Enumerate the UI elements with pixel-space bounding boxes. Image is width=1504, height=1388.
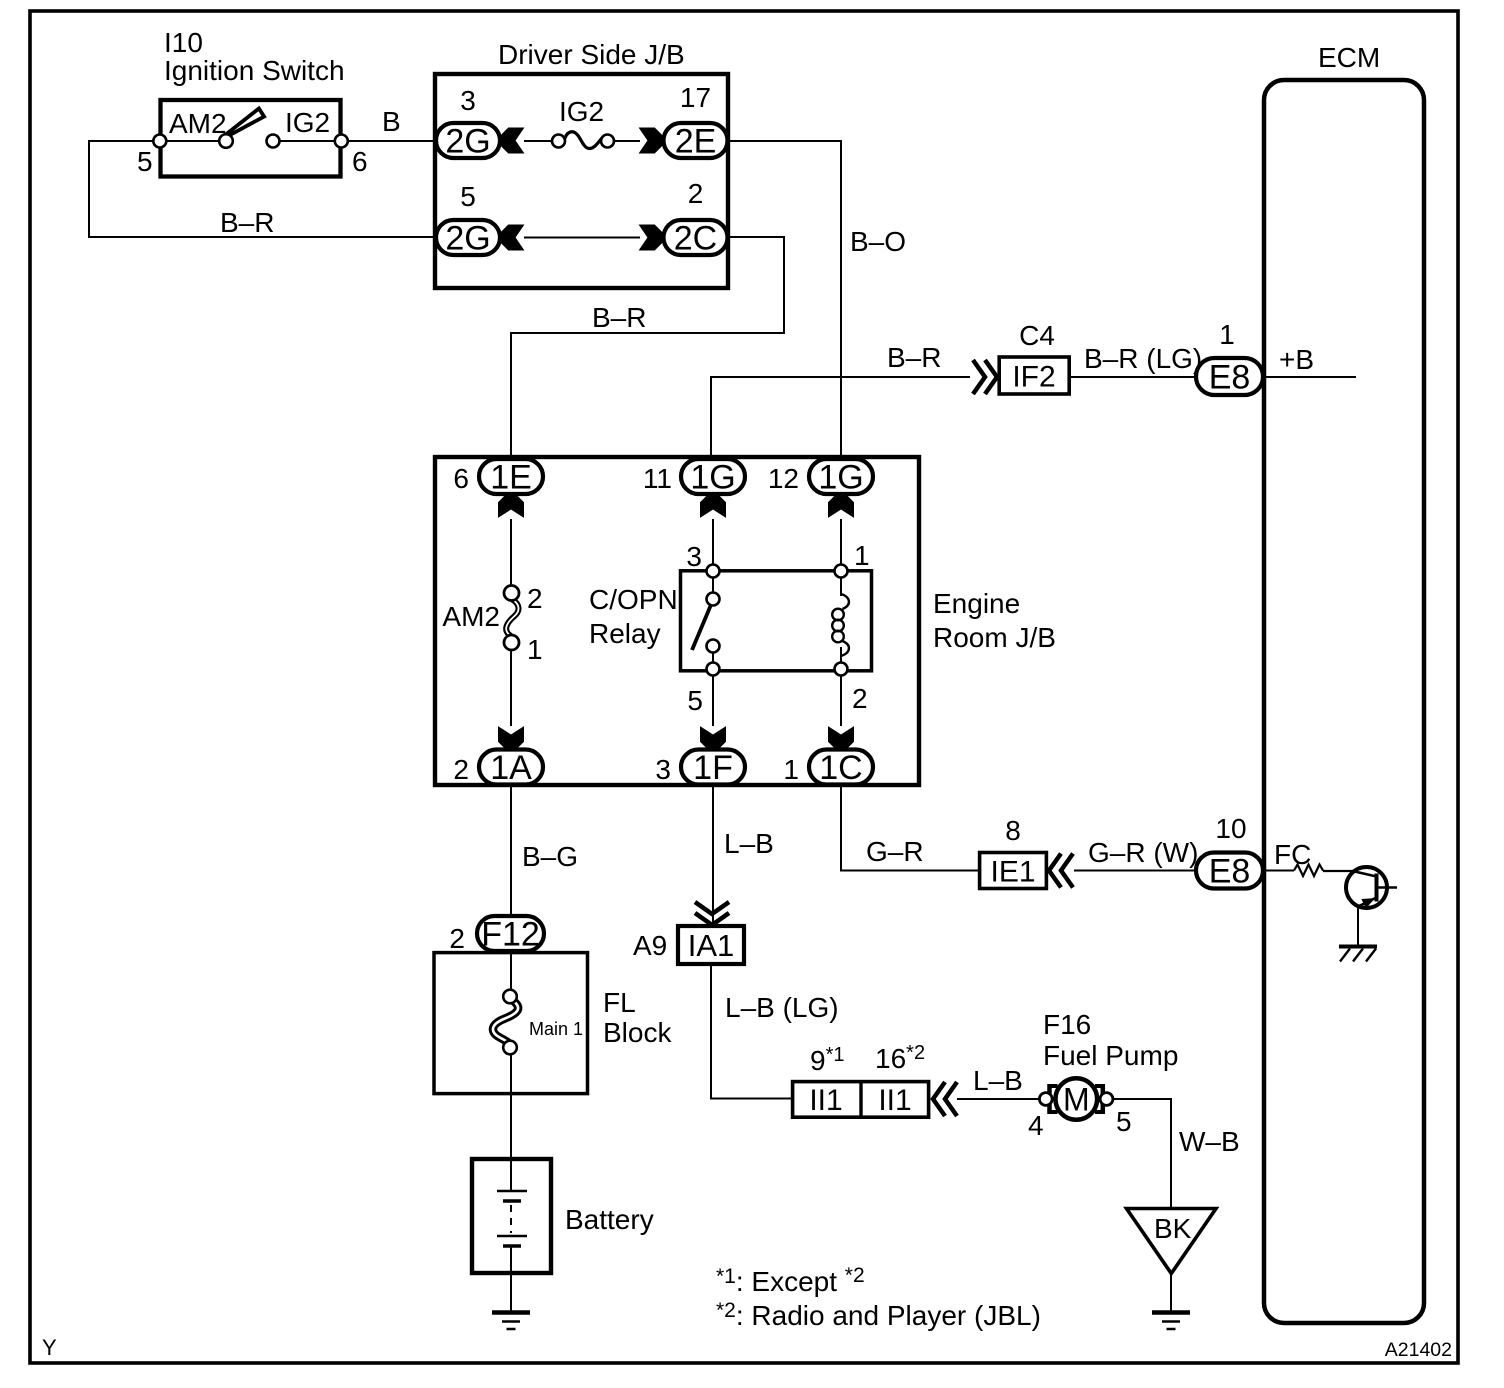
wire B-G 1A to F12 bbox=[510, 784, 512, 917]
FL block label bbox=[603, 987, 672, 1048]
svg-text:1E: 1E bbox=[490, 459, 532, 497]
wire B-R to IF2 bbox=[711, 376, 970, 458]
wire B-R (ignition pin 5 to 2G pin 5) bbox=[89, 140, 436, 238]
svg-text:FC: FC bbox=[1274, 839, 1311, 870]
svg-text:IF2: IF2 bbox=[1012, 360, 1055, 393]
svg-text:9*1: 9*1 bbox=[810, 1044, 844, 1076]
svg-text:2: 2 bbox=[449, 923, 465, 954]
svg-text:3: 3 bbox=[460, 85, 476, 116]
svg-text:*1: Except *2: *1: Except *2 bbox=[716, 1264, 865, 1297]
svg-text:L–B: L–B bbox=[973, 1065, 1023, 1096]
svg-text:Y: Y bbox=[42, 1335, 57, 1360]
svg-text:F12: F12 bbox=[481, 916, 540, 954]
FL block box bbox=[434, 953, 588, 1094]
wire resistor to transistor bbox=[1323, 870, 1354, 872]
relay switch blade bbox=[692, 600, 713, 650]
connector 1G pin 11 bbox=[681, 459, 745, 494]
fuse AM2 element bbox=[506, 600, 518, 640]
arrow into 1F bbox=[701, 727, 726, 749]
relay coil bbox=[832, 594, 849, 656]
relay coil terminal pin 2 bbox=[835, 663, 848, 676]
connector F12 pin 2 bbox=[477, 916, 544, 951]
wire 1G pin11 through relay contact to 1F bbox=[712, 519, 714, 726]
wire transistor emitter to ground bbox=[1357, 907, 1359, 947]
fuel pump motor M1 body bbox=[1056, 1078, 1098, 1120]
arrow into 2G pin 3 bbox=[501, 128, 524, 153]
svg-text:1G: 1G bbox=[690, 459, 735, 497]
battery cell dashes bbox=[510, 1205, 512, 1233]
connector 1A pin 2 bbox=[479, 750, 543, 785]
svg-text:2: 2 bbox=[527, 583, 543, 614]
fuse AM2 bottom terminal bbox=[504, 635, 519, 650]
wire FC into ECM bbox=[1262, 870, 1294, 872]
svg-text:Relay: Relay bbox=[589, 618, 661, 649]
ECM internal ground bbox=[1339, 947, 1377, 962]
connector IE1 box bbox=[980, 853, 1047, 889]
svg-text:Room J/B: Room J/B bbox=[933, 622, 1056, 653]
chevrons into II1 bbox=[933, 1082, 945, 1116]
connector 1C pin 1 bbox=[809, 750, 873, 785]
svg-text:1: 1 bbox=[854, 540, 870, 571]
svg-text:6: 6 bbox=[352, 146, 368, 177]
svg-text:Battery: Battery bbox=[565, 1204, 654, 1235]
wire BK to ground bbox=[1170, 1272, 1172, 1311]
svg-text:5: 5 bbox=[1116, 1106, 1132, 1137]
BK ground bbox=[1152, 1310, 1190, 1315]
svg-text:ECM: ECM bbox=[1318, 42, 1380, 73]
svg-text:Ignition Switch: Ignition Switch bbox=[164, 55, 345, 86]
fuel pump terminal pin 5 bbox=[1100, 1093, 1113, 1106]
battery box bbox=[472, 1159, 551, 1273]
battery negative plate bbox=[503, 1244, 521, 1248]
connector 2G pin 5 bbox=[436, 220, 500, 255]
svg-text:IG2: IG2 bbox=[285, 107, 330, 138]
fuse IG2 right terminal bbox=[601, 135, 614, 148]
svg-text:17: 17 bbox=[680, 82, 711, 113]
svg-text:1A: 1A bbox=[490, 749, 532, 787]
svg-text:E8: E8 bbox=[1209, 853, 1251, 891]
connector 2G pin 3 bbox=[436, 123, 500, 158]
svg-text:16*2: 16*2 bbox=[875, 1042, 925, 1074]
svg-text:4: 4 bbox=[1028, 1110, 1044, 1141]
connector IA1 box bbox=[678, 926, 744, 964]
fuse IG2 element bbox=[564, 132, 603, 149]
ignition switch lever bbox=[226, 109, 264, 137]
connector 1E pin 6 bbox=[479, 459, 543, 494]
relay coil terminal pin 1 bbox=[835, 565, 848, 578]
fuel pump F16 label bbox=[1043, 1009, 1178, 1071]
wire B-O (2E to Engine Room J/B 1G pin 12) bbox=[728, 140, 841, 458]
svg-text:C/OPN: C/OPN bbox=[589, 584, 678, 615]
connector IF2 box bbox=[999, 357, 1069, 394]
arrow into 2G pin 5 bbox=[501, 225, 524, 250]
svg-text:12: 12 bbox=[768, 463, 799, 494]
ECM component box bbox=[1264, 80, 1424, 1323]
svg-text:W–B: W–B bbox=[1179, 1126, 1240, 1157]
arrow into 1E bbox=[499, 495, 524, 517]
arrow into 1A bbox=[499, 727, 524, 749]
svg-text:3: 3 bbox=[686, 541, 702, 572]
svg-text:1: 1 bbox=[527, 634, 543, 665]
svg-text:B: B bbox=[382, 106, 401, 137]
fusible link Main 1 element bbox=[493, 1002, 518, 1048]
fuel pump terminal pin 4 bbox=[1039, 1093, 1052, 1106]
svg-text:E8: E8 bbox=[1209, 359, 1251, 397]
svg-text:Driver Side J/B: Driver Side J/B bbox=[498, 39, 685, 70]
svg-text:2: 2 bbox=[453, 754, 469, 785]
Driver Side J/B box bbox=[435, 74, 728, 288]
svg-text:B–R: B–R bbox=[592, 302, 646, 333]
shield ground BK triangle bbox=[1127, 1209, 1217, 1274]
wire L-B (LG) IA1 to II1 bbox=[710, 964, 792, 1100]
svg-text:A21402: A21402 bbox=[1385, 1339, 1452, 1361]
wire +B into ECM bbox=[1263, 376, 1356, 378]
svg-text:F16: F16 bbox=[1043, 1009, 1091, 1040]
svg-text:B–R (LG): B–R (LG) bbox=[1084, 343, 1202, 374]
Engine Room J/B label bbox=[933, 588, 1056, 653]
wire 2G-2C row bbox=[524, 237, 640, 239]
chevrons into IA1 bbox=[695, 902, 729, 914]
chevrons into IF2 bbox=[973, 360, 985, 394]
arrow into 2C pin 2 bbox=[640, 225, 663, 250]
arrow into 2E pin 17 bbox=[640, 128, 663, 153]
wire G-R 1C to IE1 bbox=[840, 784, 979, 872]
svg-text:B–G: B–G bbox=[522, 841, 578, 872]
svg-text:5: 5 bbox=[460, 181, 476, 212]
svg-text:2C: 2C bbox=[674, 220, 717, 258]
C/OPN relay label bbox=[589, 584, 678, 649]
connector II1 II1 box bbox=[793, 1082, 929, 1118]
svg-text:G–R: G–R bbox=[866, 836, 924, 867]
svg-text:2G: 2G bbox=[445, 123, 490, 161]
svg-text:Fuel Pump: Fuel Pump bbox=[1043, 1040, 1178, 1071]
ignition switch contact AM2 bbox=[219, 134, 233, 148]
connector E8 pin 10 bbox=[1196, 853, 1263, 889]
svg-text:A9: A9 bbox=[633, 930, 667, 961]
relay contact lower bbox=[707, 640, 720, 653]
svg-text:B–R: B–R bbox=[887, 342, 941, 373]
svg-text:2: 2 bbox=[688, 178, 704, 209]
ignition switch contact IG2 bbox=[267, 135, 280, 148]
connector 2E pin 17 bbox=[664, 123, 728, 158]
svg-text:1C: 1C bbox=[819, 749, 862, 787]
wire B-R (LG) IF2 to E8 bbox=[1070, 376, 1196, 378]
connector 1G pin 12 bbox=[809, 459, 873, 494]
svg-text:FL: FL bbox=[603, 987, 636, 1018]
arrow into 1G pin 11 bbox=[701, 495, 726, 517]
ignition switch pin 5 bbox=[153, 135, 166, 148]
wire B-R (2C to Engine Room J/B 1E) bbox=[511, 236, 784, 458]
svg-text:II1: II1 bbox=[809, 1084, 842, 1117]
wire B (ignition pin 6 to 2G) bbox=[341, 140, 436, 142]
fusible link bottom terminal bbox=[503, 1041, 517, 1055]
transistor Q (FC driver) bbox=[1346, 867, 1397, 908]
battery plate 3 bbox=[497, 1235, 527, 1237]
svg-text:10: 10 bbox=[1215, 813, 1246, 844]
svg-text:I10: I10 bbox=[164, 27, 203, 58]
svg-text:C4: C4 bbox=[1019, 320, 1055, 351]
wire W-B fuel pump to BK bbox=[1112, 1098, 1171, 1209]
svg-text:2E: 2E bbox=[675, 123, 717, 161]
svg-text:Block: Block bbox=[603, 1017, 672, 1048]
C/OPN relay box bbox=[681, 571, 872, 671]
arrow into 1G pin 12 bbox=[829, 495, 854, 517]
svg-text:8: 8 bbox=[1005, 815, 1021, 846]
wire inside FL block bbox=[510, 951, 512, 1191]
battery positive plate bbox=[497, 1190, 527, 1192]
battery plate 2 bbox=[503, 1199, 521, 1203]
relay contact terminal pin 3 bbox=[707, 565, 720, 578]
fuse AM2 top terminal bbox=[504, 586, 519, 601]
connector E8 pin 1 bbox=[1196, 358, 1263, 395]
svg-text:IG2: IG2 bbox=[559, 96, 604, 127]
svg-text:*2: Radio and Player (JBL): *2: Radio and Player (JBL) bbox=[716, 1299, 1041, 1331]
svg-text:6: 6 bbox=[453, 463, 469, 494]
ignition switch I10 box bbox=[161, 100, 341, 177]
wire L-B II1 to fuel pump bbox=[957, 1098, 1040, 1100]
svg-text:1G: 1G bbox=[818, 459, 863, 497]
relay contact terminal pin 5 bbox=[707, 663, 720, 676]
svg-text:1: 1 bbox=[1219, 319, 1235, 350]
svg-text:II1: II1 bbox=[878, 1084, 911, 1117]
fuse IG2 left terminal bbox=[552, 135, 565, 148]
fusible link top terminal bbox=[503, 990, 517, 1004]
battery ground bbox=[492, 1310, 530, 1315]
svg-text:BK: BK bbox=[1154, 1213, 1192, 1244]
Engine Room J/B box bbox=[435, 457, 919, 785]
chevrons into IE1 bbox=[1049, 854, 1061, 888]
svg-text:M: M bbox=[1063, 1082, 1090, 1118]
svg-text:AM2: AM2 bbox=[442, 601, 500, 632]
wire 1G pin12 through relay coil to 1C bbox=[840, 519, 842, 726]
svg-text:2: 2 bbox=[852, 683, 868, 714]
resistor inside ECM bbox=[1294, 865, 1323, 877]
svg-text:IA1: IA1 bbox=[688, 928, 735, 963]
connector 2C pin 2 bbox=[664, 220, 728, 255]
svg-text:1: 1 bbox=[783, 754, 799, 785]
svg-text:5: 5 bbox=[137, 146, 153, 177]
wire G-R (W) to E8 bbox=[1074, 870, 1195, 872]
ignition switch contact wires bbox=[160, 140, 341, 142]
svg-text:3: 3 bbox=[655, 754, 671, 785]
ignition switch pin 6 bbox=[335, 135, 348, 148]
wire L-B 1F to IA1 bbox=[712, 784, 714, 925]
wire 1E to AM2 fuse to 1A bbox=[510, 519, 512, 726]
svg-text:G–R (W): G–R (W) bbox=[1088, 837, 1198, 868]
svg-text:AM2: AM2 bbox=[169, 108, 227, 139]
svg-text:IE1: IE1 bbox=[990, 855, 1035, 888]
svg-text:5: 5 bbox=[687, 685, 703, 716]
wire IG2 fuse row bbox=[524, 140, 640, 142]
arrow into 1C bbox=[829, 727, 854, 749]
wire battery to ground bbox=[510, 1246, 512, 1311]
ignition switch I10 label bbox=[164, 27, 345, 86]
svg-text:B–R: B–R bbox=[220, 207, 274, 238]
svg-text:B–O: B–O bbox=[850, 226, 906, 257]
svg-text:L–B: L–B bbox=[724, 828, 774, 859]
svg-text:+B: +B bbox=[1279, 344, 1314, 375]
svg-text:11: 11 bbox=[643, 463, 672, 494]
svg-text:2G: 2G bbox=[445, 220, 490, 258]
svg-text:1F: 1F bbox=[693, 749, 733, 787]
svg-text:L–B (LG): L–B (LG) bbox=[725, 992, 839, 1023]
svg-text:Main 1: Main 1 bbox=[529, 1019, 583, 1039]
svg-text:Engine: Engine bbox=[933, 588, 1020, 619]
fuel pump motor brackets bbox=[1048, 1084, 1106, 1114]
relay contact pivot bbox=[707, 593, 720, 606]
connector 1F pin 3 bbox=[681, 750, 745, 785]
